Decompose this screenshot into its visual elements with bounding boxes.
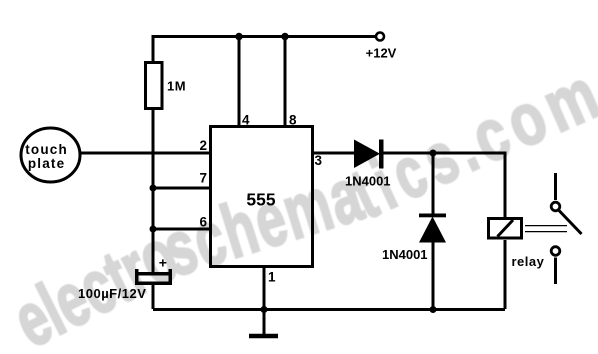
svg-text:+12V: +12V: [366, 46, 397, 61]
svg-text:2: 2: [199, 138, 207, 153]
svg-text:7: 7: [199, 171, 207, 186]
svg-text:1M: 1M: [167, 79, 186, 94]
svg-text:plate: plate: [28, 156, 66, 171]
svg-text:+: +: [159, 255, 167, 271]
svg-text:4: 4: [242, 113, 250, 128]
svg-text:touch: touch: [25, 142, 68, 157]
svg-text:1: 1: [268, 270, 276, 285]
svg-text:6: 6: [199, 215, 207, 230]
svg-text:relay: relay: [512, 254, 545, 269]
svg-text:8: 8: [289, 113, 297, 128]
svg-text:555: 555: [246, 190, 275, 210]
svg-text:1N4001: 1N4001: [382, 247, 428, 262]
svg-text:100µF/12V: 100µF/12V: [78, 286, 146, 301]
svg-text:1N4001: 1N4001: [345, 173, 391, 188]
svg-text:3: 3: [315, 153, 323, 168]
